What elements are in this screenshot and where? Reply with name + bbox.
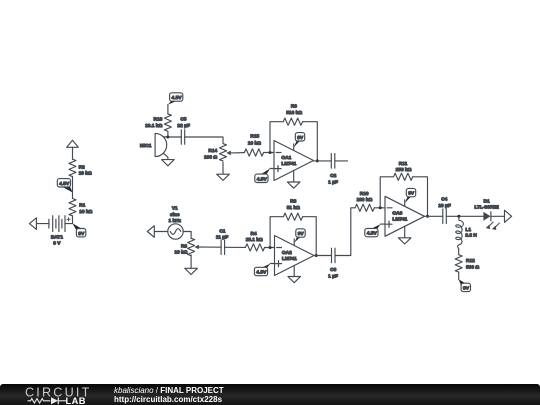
wire [167,131,169,137]
svg-text:1 kHz: 1 kHz [169,218,182,224]
svg-text:R11: R11 [399,161,408,167]
svg-text:MIC1: MIC1 [140,143,152,149]
wire [270,217,283,248]
svg-text:9 V: 9 V [53,241,61,247]
svg-text:10 kΩ: 10 kΩ [248,140,261,146]
net flag V1 negative [147,226,154,238]
net flag battery negative [29,218,36,230]
potentiometer R14 [204,144,238,161]
svg-text:OA3: OA3 [392,211,402,217]
net flag 9V [294,133,305,148]
wire [491,215,505,217]
potentiometer R3 [174,238,204,255]
wire [238,152,244,154]
capacitor C2 [328,154,338,186]
svg-text:C4: C4 [441,197,447,203]
svg-text:OA2: OA2 [282,250,292,256]
svg-text:15.1 kΩ: 15.1 kΩ [246,237,263,243]
svg-text:510 kΩ: 510 kΩ [286,110,302,116]
svg-text:10 kΩ: 10 kΩ [79,209,92,215]
svg-text:4.5V: 4.5V [59,181,70,187]
svg-text:LAB: LAB [66,396,86,405]
op-amp OA1 [274,141,314,183]
svg-text:C1: C1 [219,228,225,234]
capacitor C1 [216,228,228,254]
resistor R8 [283,198,302,220]
node C4 L1 D1 junction [457,215,460,218]
resistor R13 [145,114,171,131]
svg-text:4.5V: 4.5V [256,270,267,276]
capacitor C4 [438,197,451,224]
wire [270,168,274,170]
svg-text:R14: R14 [208,148,217,154]
resistor R10 [355,191,374,211]
resistor R11 [394,161,413,181]
node OA1 inverting input [269,151,272,154]
node OA3 output [426,215,429,218]
svg-text:1 μF: 1 μF [328,274,338,280]
svg-text:R9: R9 [291,103,297,109]
battery BAT1 [49,216,70,247]
svg-text:10 kΩ: 10 kΩ [174,250,187,256]
wire [190,255,192,268]
svg-text:9V: 9V [297,135,304,141]
wire [270,263,274,265]
ground [185,268,198,274]
svg-text:4.5V: 4.5V [172,95,183,101]
node OA1 output [316,159,319,162]
svg-text:11 μF: 11 μF [216,235,228,241]
svg-text:R15: R15 [250,133,259,139]
svg-text:R12: R12 [466,258,475,264]
wire [335,160,348,162]
resistor R4 [245,231,264,251]
resistor R1 [69,199,93,216]
wire [303,217,317,256]
net flag top of divider [67,140,79,147]
microphone MIC1 [140,133,168,159]
svg-text:BAT1: BAT1 [51,235,64,241]
svg-text:R1: R1 [79,203,85,209]
net flag 4.5V [254,264,270,276]
resistor R12 [455,255,479,272]
wire [185,137,223,144]
svg-text:C2: C2 [330,173,336,179]
svg-text:R13: R13 [153,117,162,123]
svg-text:R10: R10 [360,191,369,197]
node OA2 output [315,254,318,257]
wire [381,223,385,225]
wire [167,105,169,114]
wire [225,246,246,248]
wire [204,246,221,248]
inductor L1 [456,216,478,249]
svg-text:OA1: OA1 [281,155,291,161]
svg-text:L1: L1 [465,227,471,233]
voltage source V1 [168,206,183,240]
svg-text:R4: R4 [251,231,257,237]
wire [265,247,275,249]
svg-text:9V: 9V [408,191,415,197]
net flag 9V [72,223,85,237]
ground [217,174,230,180]
wire [264,152,274,154]
svg-text:sine: sine [170,212,180,218]
wire [303,122,318,161]
svg-text:LTL-307EE: LTL-307EE [474,205,499,211]
wire [413,177,428,217]
wire [458,249,460,255]
op-amp OA3 [385,196,425,238]
node OA2 inverting input [269,246,272,249]
ground [162,160,175,166]
svg-text:250 kΩ: 250 kΩ [396,167,412,173]
net flag output [505,210,512,222]
op-amp OA2 [275,236,315,277]
net flag 4.5V [168,93,183,105]
wire [458,272,460,279]
net flag 4.5V [255,169,270,183]
svg-text:LM741: LM741 [392,217,407,223]
wire [335,208,355,256]
svg-text:4.5V: 4.5V [367,231,378,237]
wire [270,122,283,153]
net flag 4.5V [365,224,381,237]
wire [314,160,332,162]
svg-text:22 μF: 22 μF [177,123,190,129]
net flag 9V [405,188,416,203]
LED D1 [474,198,499,230]
wire [154,231,168,233]
ground [288,277,301,283]
svg-text:9V: 9V [78,231,85,237]
wire [72,177,74,199]
svg-text:1 μF: 1 μF [328,179,338,185]
capacitor C5 [177,117,190,145]
wire [446,215,483,217]
svg-text:10 μF: 10 μF [438,203,451,209]
resistor R15 [244,133,263,156]
resistor R2 [69,159,92,176]
svg-text:R8: R8 [290,198,296,204]
ground [398,238,411,244]
wire [183,232,191,239]
svg-text:9V: 9V [298,231,305,237]
net flag 9V [294,229,305,243]
svg-text:LM741: LM741 [281,161,296,167]
svg-text:D1: D1 [484,198,490,204]
svg-text:100 Ω: 100 Ω [204,154,217,160]
net flag 4.5V [57,179,72,193]
capacitor C3 [328,248,338,279]
svg-text:100 kΩ: 100 kΩ [356,197,372,203]
node mic R13 C5 junction [166,136,169,139]
svg-text:C3: C3 [330,267,336,273]
wire [314,255,332,257]
wire [72,147,74,159]
svg-text:4.5V: 4.5V [257,176,268,182]
wire [380,177,393,208]
svg-text:R3: R3 [181,243,187,249]
svg-text:LM741: LM741 [282,256,297,262]
svg-text:500 Ω: 500 Ω [466,265,479,271]
svg-text:R2: R2 [79,164,85,170]
svg-text:9V: 9V [463,286,470,292]
svg-text:V1: V1 [172,206,178,212]
svg-text:10.1 kΩ: 10.1 kΩ [145,123,162,129]
svg-text:2.2 H: 2.2 H [465,233,477,239]
resistor R9 [283,103,302,125]
wire [36,223,49,225]
wire [425,215,443,217]
svg-text:51 kΩ: 51 kΩ [287,205,300,211]
wire [222,162,224,174]
node OA3 inverting input [379,206,382,209]
wire [168,136,181,138]
net flag 9V [459,279,471,291]
wire [374,207,385,209]
wire [65,216,73,224]
svg-text:C5: C5 [180,117,186,123]
svg-text:10 kΩ: 10 kΩ [79,171,92,177]
ground [287,182,300,188]
